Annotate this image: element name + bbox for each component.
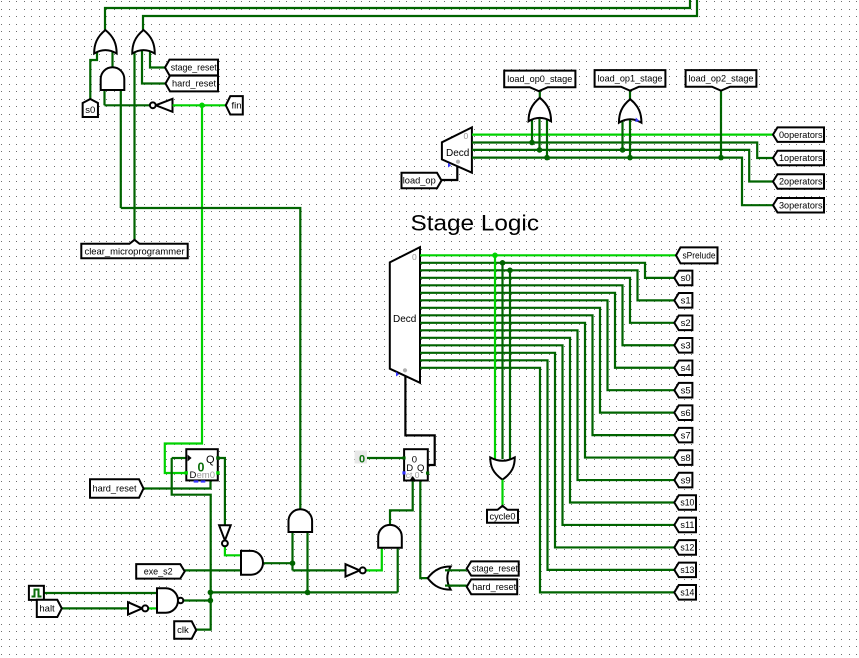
tunnel halt <box>37 600 62 617</box>
wire <box>263 562 293 564</box>
wire <box>494 255 496 459</box>
tunnel s3 <box>674 338 692 353</box>
node fin junction <box>199 103 205 109</box>
wire <box>225 547 241 556</box>
node junction <box>290 560 296 566</box>
wire <box>210 591 397 593</box>
tunnel fin <box>226 96 243 114</box>
wire <box>291 532 293 570</box>
node junction <box>620 147 626 153</box>
or-gate O6 (south) <box>490 457 515 479</box>
wire <box>538 119 540 150</box>
svg-text:s3: s3 <box>681 341 691 352</box>
wire sPrelude net <box>420 254 676 256</box>
tunnel hard_reset <box>166 76 219 92</box>
svg-text:1operators: 1operators <box>779 153 823 164</box>
not-gate N1 <box>150 99 173 112</box>
wire <box>90 51 97 99</box>
wire s10 net <box>420 338 674 503</box>
svg-text:halt: halt <box>39 604 55 615</box>
tunnel stage_reset <box>165 60 218 76</box>
and-gate A3 <box>289 509 313 532</box>
not-gate N4 <box>128 602 148 614</box>
or-gate O4 <box>529 98 552 122</box>
wire <box>546 119 548 158</box>
wire s3 net <box>420 285 674 345</box>
decoder U3 <box>442 127 472 172</box>
svg-text:2operators: 2operators <box>779 177 823 188</box>
svg-text:Stage Logic: Stage Logic <box>411 211 540 236</box>
svg-text:s10: s10 <box>680 498 694 509</box>
node junction <box>544 155 550 161</box>
svg-text:stage_reset: stage_reset <box>171 63 217 74</box>
or-gate OR1 <box>94 30 117 54</box>
svg-text:sPrelude: sPrelude <box>683 251 716 262</box>
wire s1 net <box>420 270 674 300</box>
not-gate N2 <box>346 564 366 576</box>
wire s0 net <box>420 263 674 278</box>
tunnel load_op2_stage <box>686 70 757 91</box>
tunnel load_op0_stage <box>504 71 575 92</box>
wire <box>446 584 467 586</box>
node junction <box>208 598 214 604</box>
svg-text:s12: s12 <box>680 543 694 554</box>
wire s4 net <box>420 293 674 368</box>
wire bus (black) <box>405 376 434 465</box>
and-gate A4 <box>241 551 263 575</box>
node junction <box>627 155 633 161</box>
tunnel load_op1_stage <box>595 70 666 91</box>
wire <box>148 607 157 609</box>
wire <box>172 457 187 459</box>
tunnel clk <box>174 621 196 639</box>
clock CLK1 <box>29 586 44 600</box>
node junction <box>537 147 543 153</box>
tunnel exe_s2 <box>136 564 185 579</box>
pin floating (blue) <box>635 118 639 123</box>
svg-text:exe_s2: exe_s2 <box>144 567 173 578</box>
wire <box>629 91 631 100</box>
svg-text:s6: s6 <box>681 408 691 419</box>
svg-text:s11: s11 <box>680 520 694 531</box>
svg-text:s1: s1 <box>681 296 691 307</box>
svg-text:clear_microprogrammer: clear_microprogrammer <box>85 246 185 257</box>
wire <box>150 51 165 68</box>
wire <box>472 143 773 159</box>
svg-text:s13: s13 <box>680 565 694 576</box>
node junction <box>529 140 535 146</box>
tunnel s11 <box>674 518 696 533</box>
wire <box>397 548 399 593</box>
svg-text:s2: s2 <box>681 318 691 329</box>
tunnel s13 <box>674 563 696 578</box>
wire clk net <box>172 458 211 630</box>
flip-flop U1 (D flip-flop Dem0) <box>185 449 220 482</box>
tunnel s9 <box>674 473 692 488</box>
svg-text:Decd: Decd <box>393 314 416 325</box>
svg-text:load_op0_stage: load_op0_stage <box>507 74 572 85</box>
node junction <box>718 155 724 161</box>
wire s12 net <box>420 353 674 548</box>
counter U2 (ct 0) <box>402 449 429 480</box>
tunnel s0 <box>83 99 98 117</box>
tunnel s8 <box>674 450 692 465</box>
svg-text:s8: s8 <box>681 453 691 464</box>
wire <box>501 480 503 506</box>
tunnel hard_reset (bottom left) <box>90 479 144 498</box>
svg-text:s7: s7 <box>681 430 691 441</box>
node junction <box>492 253 498 259</box>
svg-text:fin: fin <box>232 101 242 112</box>
wire <box>293 569 346 571</box>
tunnel clear_microprogrammer <box>81 240 187 258</box>
wire <box>501 263 503 459</box>
tunnel s2 <box>674 316 692 331</box>
tunnel 2operators <box>773 174 824 189</box>
node junction <box>208 590 214 596</box>
svg-text:cycle0: cycle0 <box>490 512 516 523</box>
tunnel s0 <box>674 271 692 286</box>
svg-text:stage_reset: stage_reset <box>472 564 518 575</box>
svg-text:3operators: 3operators <box>779 200 823 211</box>
tunnel cycle0 <box>487 506 518 523</box>
svg-text:s14: s14 <box>680 588 694 599</box>
tunnel load_op <box>402 173 442 189</box>
wire <box>105 104 150 106</box>
wire s13 net <box>420 360 674 570</box>
decoder U4 <box>390 247 420 383</box>
svg-text:s0: s0 <box>681 273 691 284</box>
wire clock net <box>44 592 157 594</box>
wire <box>420 481 427 579</box>
tunnel stage_reset (bottom) <box>467 561 519 575</box>
tunnel s10 <box>674 495 696 510</box>
svg-text:0: 0 <box>412 252 417 262</box>
tunnel 1operators <box>773 151 824 166</box>
svg-text:Decd: Decd <box>446 148 469 159</box>
svg-text:0operators: 0operators <box>779 130 823 141</box>
wire <box>111 51 113 68</box>
svg-text:hard_reset: hard_reset <box>472 582 516 593</box>
wire <box>621 120 623 150</box>
svg-text:load_op1_stage: load_op1_stage <box>598 74 663 85</box>
wire <box>143 0 697 30</box>
and-gate A2 <box>378 525 402 548</box>
wire s7 net <box>420 315 674 435</box>
wire <box>366 457 404 459</box>
tunnel s1 <box>674 293 692 308</box>
svg-text:s0: s0 <box>85 105 95 116</box>
tunnel s12 <box>674 540 696 555</box>
wire <box>365 548 382 571</box>
wire exe_s2 net <box>185 569 241 571</box>
or-gate OR2 <box>132 30 155 54</box>
wire s11 net <box>420 345 674 525</box>
wire s6 net <box>420 308 674 413</box>
constant 0 <box>355 451 368 466</box>
svg-text:0: 0 <box>359 454 365 466</box>
tunnel s5 <box>674 383 692 398</box>
wire halt net <box>62 607 128 609</box>
svg-text:s5: s5 <box>681 385 691 396</box>
wire <box>472 158 773 206</box>
tunnel sPrelude <box>676 247 718 263</box>
svg-text:load_op2_stage: load_op2_stage <box>689 74 754 85</box>
wire Q1 net <box>218 458 225 525</box>
tunnel s6 <box>674 405 692 420</box>
node junction <box>305 590 311 596</box>
svg-text:s9: s9 <box>681 475 691 486</box>
not-gate N3 (down) <box>219 525 231 546</box>
svg-text:0: 0 <box>464 131 469 141</box>
wire s9 net <box>420 330 674 480</box>
wire <box>120 90 122 208</box>
wire <box>720 91 722 158</box>
wire s5 net <box>420 300 674 390</box>
wire fin vertical <box>165 105 202 473</box>
wire <box>629 120 631 158</box>
node junction <box>500 260 506 266</box>
wire s8 net <box>420 323 674 458</box>
wire <box>390 481 413 525</box>
wire <box>133 50 135 240</box>
and-gate A1 <box>101 67 125 90</box>
wire NAND out <box>183 599 210 601</box>
label Stage Logic <box>411 211 540 236</box>
svg-text:hard_reset: hard_reset <box>93 484 137 495</box>
nand-gate G1 <box>157 588 183 612</box>
node junction <box>507 268 513 274</box>
tunnel s4 <box>674 360 692 375</box>
wire <box>121 208 300 510</box>
or-gate O5 <box>619 99 642 123</box>
svg-text:hard_reset: hard_reset <box>172 79 216 90</box>
tunnel hard_reset (bottom right) <box>467 579 518 594</box>
wire <box>509 270 511 460</box>
svg-text:em0: em0 <box>197 470 215 481</box>
or-gate O7 (west) <box>428 567 451 590</box>
wire <box>472 134 773 136</box>
svg-text:load_op: load_op <box>403 176 436 187</box>
svg-text:D: D <box>190 470 197 481</box>
wire hard_reset net <box>144 481 211 489</box>
tunnel 0operators <box>773 127 824 142</box>
wire <box>472 150 773 182</box>
wire <box>142 50 166 84</box>
wire <box>531 119 533 143</box>
wire s2 net <box>420 278 674 323</box>
svg-text:s4: s4 <box>681 363 691 374</box>
svg-text:Q: Q <box>206 454 215 466</box>
wire <box>539 91 541 98</box>
tunnel 3operators <box>773 198 824 213</box>
tunnel s14 <box>674 585 696 600</box>
wire <box>306 532 308 592</box>
wire s14 net <box>420 368 674 593</box>
wire <box>446 569 467 571</box>
svg-text:clk: clk <box>177 625 189 636</box>
wire <box>105 0 690 30</box>
wire fin net <box>173 104 226 106</box>
wire <box>103 90 105 105</box>
tunnel s7 <box>674 428 692 443</box>
wire bus (black) <box>442 165 458 180</box>
